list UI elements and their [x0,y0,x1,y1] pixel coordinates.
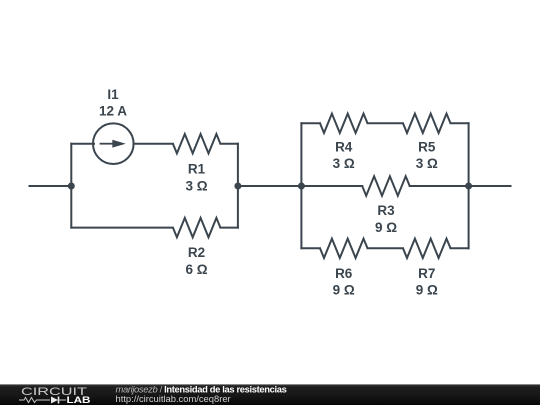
svg-text:9 Ω: 9 Ω [333,283,355,298]
wire R1 to node B [220,143,238,145]
wire node B to node C [238,185,302,187]
wire bottom branch to R6 [301,247,320,249]
logo diode symbol [51,397,66,404]
svg-text:3 Ω: 3 Ω [416,156,438,171]
resistor R2 [173,218,221,237]
footer bar [0,384,540,405]
wire R3 to node D [410,185,469,187]
wire right vertical of right block [468,123,470,248]
node D junction dot [465,183,472,190]
svg-text:R3: R3 [377,203,395,218]
label R2 6 ohm [185,245,207,277]
label R7 9 ohm [416,266,438,298]
svg-text:12 A: 12 A [99,103,127,118]
resistor R7 [403,239,451,258]
wire R4 to R5 [368,122,404,124]
wire left stub [30,185,72,187]
wire R6 to R7 [368,247,404,249]
current source I1 [93,123,134,164]
wire right vertical of left block [237,144,239,228]
svg-text:R6: R6 [335,266,353,281]
wire left vertical of right block [300,123,302,248]
resistor R4 [320,114,368,133]
resistor R6 [320,239,368,258]
svg-text:I1: I1 [107,87,119,102]
wire R5 to right corner [451,122,469,124]
svg-text:R2: R2 [188,245,205,260]
resistor R1 [173,134,221,153]
logo wire with resistor zigzag [19,398,50,403]
svg-text:R4: R4 [335,140,353,155]
svg-text:R5: R5 [418,140,436,155]
wire right stub [469,185,511,187]
svg-text:3 Ω: 3 Ω [185,179,207,194]
label R1 3 ohm [185,162,207,194]
wire R2 to node B [220,227,238,229]
label R4 3 ohm [333,140,355,172]
svg-text:http://circuitlab.com/ceq8rer: http://circuitlab.com/ceq8rer [116,393,231,404]
svg-text:9 Ω: 9 Ω [416,283,438,298]
node C junction dot [298,183,305,190]
label R6 9 ohm [333,266,355,298]
svg-text:3 Ω: 3 Ω [333,156,355,171]
label R3 9 ohm [375,203,397,235]
resistor R3 [362,176,410,195]
node B junction dot [234,183,241,190]
wire bottom branch left [71,227,173,229]
wire top-left to source [71,143,94,145]
wire source to R1 [134,143,173,145]
wire top branch to R4 [301,122,320,124]
svg-text:R7: R7 [418,266,435,281]
node left junction dot [68,183,75,190]
wire R7 to right corner [451,247,469,249]
wire node C to R3 [301,185,362,187]
svg-text:LAB: LAB [67,395,91,405]
svg-text:6 Ω: 6 Ω [185,262,207,277]
svg-text:R1: R1 [188,162,206,177]
svg-text:9 Ω: 9 Ω [375,220,397,235]
label R5 3 ohm [416,140,438,172]
wire left vertical [70,144,72,228]
resistor R5 [403,114,451,133]
label I1 12 A [99,87,127,118]
